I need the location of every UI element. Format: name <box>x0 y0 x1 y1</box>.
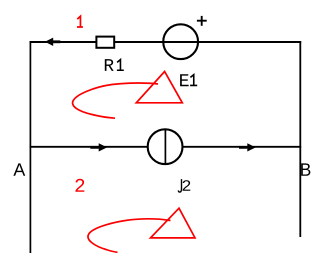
loop 1 arrowhead triangle (red) <box>136 72 182 103</box>
current direction arrow on middle branch right of J2 (pointing right) <box>239 143 256 151</box>
loop 2 arrowhead triangle (red) <box>151 208 196 238</box>
loop 2 number label (red digit 2) <box>75 179 84 192</box>
label E1: letter E <box>180 74 189 86</box>
node label B <box>301 163 310 175</box>
resistor R1 <box>96 37 114 48</box>
node label A <box>13 163 25 175</box>
current direction arrow on top branch (pointing left) <box>45 38 60 46</box>
polarity plus sign of E1 <box>197 16 207 26</box>
wire: middle horizontal branch <box>30 146 302 148</box>
label R1: digit 1 <box>117 60 124 71</box>
loop 1 number label (red digit 1) <box>77 16 83 27</box>
wire: top horizontal branch <box>30 41 302 43</box>
current direction arrow on middle branch left of J2 (pointing right) <box>90 143 107 151</box>
label J2: digit 2 <box>183 180 191 191</box>
wire: left vertical branch <box>29 41 31 253</box>
label R1: letter R <box>105 59 114 71</box>
label J2: letter J <box>178 179 181 192</box>
loop 2 direction arc (red hand-drawn) <box>88 219 171 252</box>
EMF source E1 (circle, wire passes through) <box>163 24 198 59</box>
current source J2 (circle with vertical bar) <box>148 129 183 164</box>
wire: right vertical branch <box>299 41 301 237</box>
label E1: digit 1 <box>190 75 197 86</box>
loop 1 direction arc (red hand-drawn) <box>73 83 158 118</box>
